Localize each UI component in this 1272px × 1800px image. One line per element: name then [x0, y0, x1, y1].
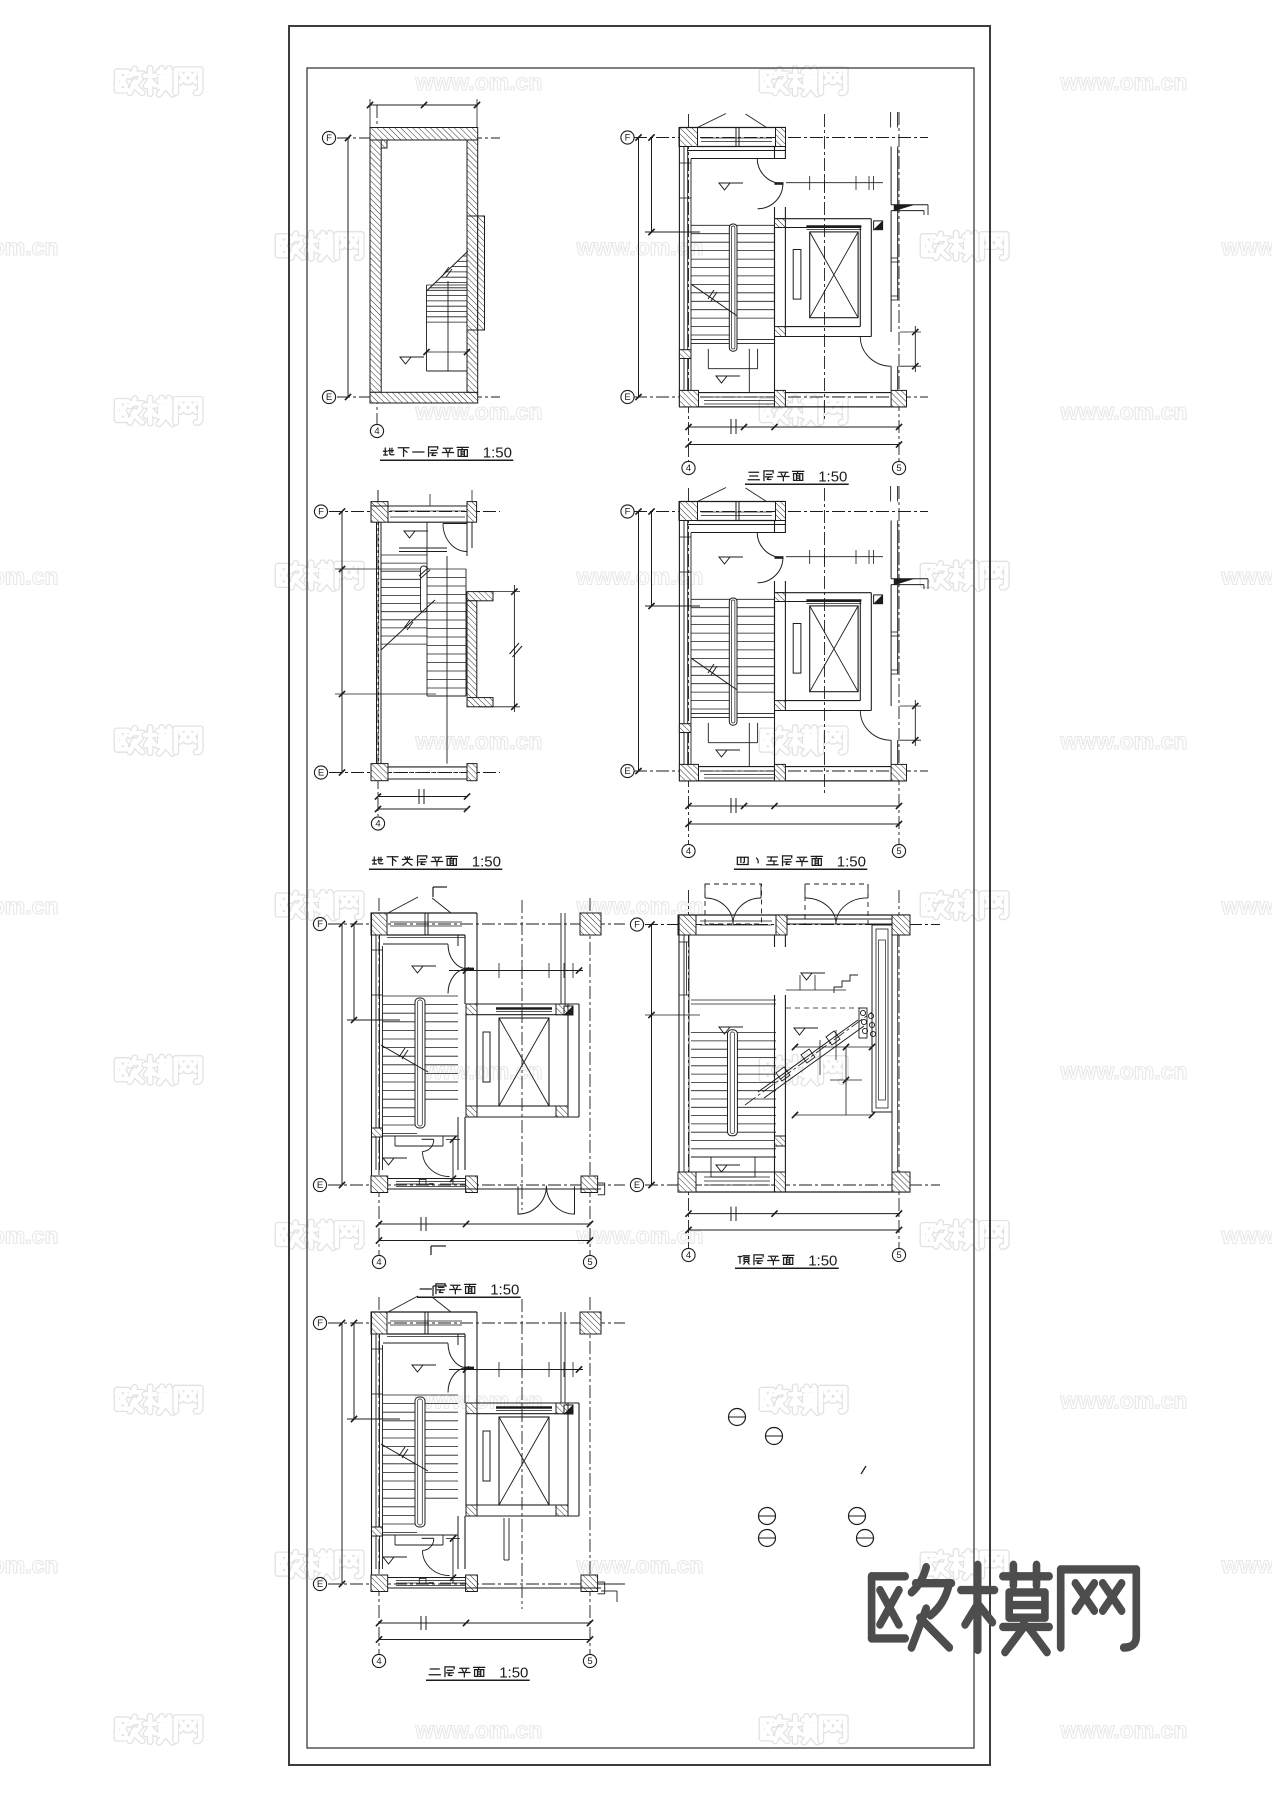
- D1 bottom wall hatched: [370, 392, 478, 403]
- detail circle symbol 6: [857, 1530, 874, 1547]
- outer border frame: [289, 26, 990, 1765]
- D3 top wall: [371, 505, 467, 507]
- D6 left wall window: [679, 941, 689, 943]
- detail circle symbol 4: [759, 1530, 776, 1547]
- D3 level marker: [404, 531, 415, 538]
- D7 elevator shaft top wall: [466, 1402, 579, 1404]
- D4 axis E bubble: [621, 764, 634, 777]
- D3 left dim ext: [335, 568, 430, 570]
- D2 top wall outer line: [679, 127, 786, 129]
- D4 dim row 1: [689, 805, 900, 807]
- D2 top wall inner line: [698, 146, 777, 148]
- D7 stair treads upper: [383, 1394, 458, 1396]
- D7 dim double tick: [420, 1616, 422, 1630]
- svg-text:F: F: [326, 133, 332, 144]
- D5 left wall sills: [371, 949, 383, 951]
- D3 bottom dim 1: [378, 796, 467, 798]
- svg-text:4: 4: [686, 1250, 691, 1261]
- D6 hinge plate: [859, 1008, 867, 1038]
- D5 dim double tick: [420, 1217, 422, 1231]
- D5 axis F line: [328, 923, 625, 925]
- D2 stair door arc lower: [758, 184, 783, 209]
- D7 stair well rect: [394, 1535, 396, 1545]
- D3 axis E bubble: [314, 766, 327, 779]
- D1 top dim ext: [369, 99, 371, 127]
- D3 right hatched stub top: [467, 592, 493, 601]
- D3 diag arrows: [404, 620, 410, 628]
- D2 stair-room right wall: [774, 147, 776, 160]
- D5 upper door arc 2: [448, 969, 468, 994]
- D6 axis 4 bubble: [682, 1248, 695, 1261]
- D6 level top: [719, 1027, 730, 1034]
- D7 vestibule lines: [387, 1336, 465, 1338]
- D7 bottom wall: [371, 1587, 601, 1589]
- D2 dim extension above shaft: [786, 182, 883, 184]
- D7 axis 5 line: [589, 1297, 591, 1654]
- D2 level marker top: [719, 183, 730, 190]
- D2 car door sill: [806, 225, 861, 227]
- D7 top wall window: [390, 1320, 462, 1322]
- D6 dim row 2: [689, 1229, 900, 1231]
- D6 top dashed canopy right: [805, 884, 868, 924]
- D6 stair treads: [691, 1032, 776, 1034]
- D1 axis E bubble: [322, 390, 335, 403]
- D5 threshold step: [419, 1179, 426, 1185]
- D5 axis 4 bubble: [372, 1255, 385, 1268]
- D7 axis F bubble: [313, 1316, 326, 1329]
- D2 elevator car: [810, 232, 858, 318]
- D4 elevator shaft top wall: [775, 592, 872, 594]
- D7 below-wall duct: [503, 1518, 505, 1560]
- D4 left wall window sills: [679, 536, 691, 538]
- D7 axis E bubble: [313, 1577, 326, 1590]
- D5 double door jambs: [517, 1186, 519, 1214]
- D2 bottom threshold lines: [704, 396, 775, 398]
- D3 right hatched stub bottom: [467, 698, 493, 707]
- D2 elevator centerline: [824, 114, 826, 420]
- D5 stair door arc small: [423, 1140, 434, 1152]
- D7 stair handrail: [415, 1397, 425, 1527]
- D2 left wall outer: [678, 128, 680, 407]
- D3 bottom dim 2: [378, 808, 467, 810]
- D5 title 一层平面 1:50: [420, 1284, 431, 1293]
- D2 left dim line inner: [651, 138, 653, 233]
- D1 axis E line: [337, 396, 500, 398]
- D6 left wall: [678, 915, 680, 1192]
- D5 car door sill: [496, 1007, 552, 1009]
- svg-text:1:50: 1:50: [490, 1282, 519, 1299]
- D7 stair door dim line: [452, 1538, 454, 1584]
- svg-text:E: E: [634, 1180, 640, 1191]
- D2 right dim line: [914, 326, 916, 372]
- D4 left dim line inner: [651, 512, 653, 607]
- D7 stair break line: [381, 1444, 428, 1471]
- D2 shaft left wall: [774, 228, 776, 327]
- D7 elevator car X: [499, 1417, 549, 1505]
- D1 axis F bubble: [322, 131, 335, 144]
- D2 hall button box: [874, 221, 883, 230]
- D7 roof line left: [388, 1296, 418, 1312]
- D3 stair right flight sides: [426, 555, 428, 696]
- D7 level marker top: [412, 1365, 423, 1372]
- D5 axis 4 line: [378, 898, 380, 1255]
- D2 right wall middle: [890, 211, 892, 332]
- D4 stair handrail: [729, 598, 737, 725]
- svg-text:E: E: [326, 392, 332, 403]
- D3 bottom dim double tick: [418, 789, 420, 804]
- D3 stair bottom line: [427, 695, 466, 697]
- D2 right wall window marks: [891, 257, 898, 259]
- D5 shaft corner hatches: [466, 1004, 477, 1015]
- D3 top dim ext above: [377, 490, 379, 501]
- D6 stair bottom: [691, 1156, 776, 1158]
- D7 left dim line 2: [353, 1323, 355, 1419]
- D4 bottom-left column: [679, 764, 698, 781]
- D7 shaft left wall: [465, 1414, 467, 1505]
- D5 stair break line: [381, 1045, 428, 1072]
- D7 upper door arc 1: [448, 1343, 468, 1368]
- D4 vestibule lines: [687, 524, 786, 526]
- D7 stair door arc small: [423, 1539, 434, 1551]
- D2 axis E bubble: [621, 390, 634, 403]
- D4 axis 4 bubble: [682, 844, 695, 857]
- D4 top wall mullion: [735, 502, 737, 521]
- D7 axis 4 line: [378, 1297, 380, 1654]
- D7 bottom right stub: [601, 1583, 625, 1585]
- D3 top wall window: [390, 510, 465, 512]
- D5 dim row above shaft: [449, 970, 583, 972]
- D1 stair dim: [427, 351, 468, 353]
- D2 axis F line: [634, 137, 928, 139]
- D3 left wall: [376, 522, 378, 763]
- D4 stair treads lower: [691, 700, 733, 702]
- svg-text:1:50: 1:50: [818, 469, 847, 486]
- D3 right dim line: [513, 585, 515, 712]
- D5 axis E line: [328, 1184, 625, 1186]
- D6 top wall: [678, 914, 910, 916]
- D7 left wall hatch block: [372, 1527, 383, 1536]
- D1 left wall hatched: [370, 140, 381, 392]
- D4 ledge solid arrow: [894, 579, 914, 585]
- D5 double door arc right: [546, 1186, 574, 1214]
- D3 bottom wall centerline: [371, 772, 477, 774]
- D7 shaft corner hatches: [466, 1403, 477, 1414]
- D1 right wall upper hatched: [467, 140, 478, 216]
- D1 stair diag arrows: [443, 267, 449, 275]
- D1 top wall hatched: [370, 128, 478, 141]
- D2 landing divider line: [748, 349, 750, 393]
- D5 top-left column: [371, 913, 387, 935]
- svg-text:5: 5: [896, 463, 901, 474]
- D6 axis E bubble: [630, 1178, 643, 1191]
- D5 shaft right wall: [567, 1015, 569, 1106]
- D5 top section mark: [433, 886, 447, 888]
- D7 axis E line: [328, 1583, 625, 1585]
- D4 title 四、五层平面 1:50: [737, 857, 748, 864]
- D5 left wall hatch block: [372, 1128, 383, 1137]
- D5 bottom wall: [371, 1188, 601, 1190]
- D7 counterweight: [483, 1431, 490, 1481]
- D4 axis 4 line: [688, 488, 690, 844]
- D5 counterweight: [483, 1032, 490, 1082]
- D2 right wall lower: [890, 366, 892, 390]
- D6 top wall sill right: [787, 918, 892, 920]
- D5 stair treads upper: [383, 995, 458, 997]
- D3 right stub lines: [492, 592, 494, 601]
- D4 bottom wall inner: [699, 766, 775, 768]
- D5 dim row ext lines: [498, 963, 500, 978]
- D7 bottom threshold: [396, 1580, 465, 1582]
- D5 axis E bubble: [313, 1178, 326, 1191]
- D1 stair side lines: [426, 285, 428, 371]
- D6 bottom threshold: [704, 1176, 770, 1178]
- D4 elevator car: [810, 606, 858, 692]
- D1 left dim line: [347, 138, 349, 397]
- D3 bottom wall: [371, 766, 477, 768]
- D7 car door sill: [496, 1406, 552, 1408]
- svg-text:5: 5: [587, 1257, 592, 1268]
- D6 stair handrail: [728, 1030, 738, 1136]
- D6 diagonal squares: [776, 1067, 790, 1081]
- D6 machine room dashed line: [786, 1007, 866, 1009]
- D6 machine dim vertical: [845, 1047, 847, 1115]
- D2 stair door leaf: [775, 182, 784, 185]
- D6 machine room lines: [786, 989, 846, 991]
- D6 axis E line: [645, 1184, 940, 1186]
- D3 top-left column: [371, 502, 388, 523]
- D4 axis 5 bubble: [892, 844, 905, 857]
- D5 roof line left: [388, 897, 418, 913]
- D7 shaft bottom wall: [466, 1515, 579, 1517]
- D3 title 地下夹层平面 1:50: [372, 857, 383, 864]
- D7 axis 4 bubble: [372, 1654, 385, 1667]
- D3 axis E line: [329, 772, 500, 774]
- D4 top wall inner line: [698, 520, 777, 522]
- D6 machine dim lines 2: [795, 1114, 872, 1116]
- D3 corridor divider: [426, 522, 428, 556]
- D5 elevator car X: [499, 1018, 549, 1106]
- D4 car door sill: [806, 599, 861, 601]
- D4 elevator shaft bottom wall: [775, 710, 872, 712]
- D4 axis 5 line: [898, 486, 900, 844]
- D5 left dim line: [341, 924, 343, 1185]
- D7 left wall inner: [379, 1334, 381, 1569]
- D6 extra verticals: [835, 1030, 837, 1060]
- D7 stair door arc big: [423, 1551, 450, 1576]
- D4 left wall outer: [678, 502, 680, 781]
- D3 axis F bubble: [314, 505, 327, 518]
- D7 hall button box: [564, 1405, 573, 1414]
- svg-text:4: 4: [375, 819, 380, 830]
- D4 bottom-right column: [891, 764, 906, 781]
- D4 stair-room right wall: [774, 521, 776, 534]
- D4 right door arc: [860, 711, 891, 741]
- D2 stair handrail: [729, 224, 737, 351]
- D2 bottom-mid column: [775, 390, 786, 407]
- D6 top dashed canopy left: [705, 884, 762, 924]
- D6 top-mid column: [776, 915, 787, 935]
- D4 balcony ledge: [891, 578, 928, 580]
- D2 elevator car X: [810, 232, 858, 318]
- D2 right door arc: [860, 337, 891, 367]
- D2 axis 4 line: [688, 114, 690, 461]
- svg-text:F: F: [317, 919, 323, 930]
- D7 dim row 2: [379, 1639, 590, 1641]
- D4 bottom-mid column: [775, 764, 786, 781]
- D7 title 二层平面 1:50: [429, 1669, 440, 1675]
- D4 stair treads upper: [691, 598, 775, 600]
- D2 axis F bubble: [621, 131, 634, 144]
- D2 vestibule lines: [687, 150, 786, 152]
- D6 axis F line: [645, 924, 940, 926]
- D4 right dim line: [914, 700, 916, 746]
- D4 dim row 1 double tick: [730, 798, 732, 813]
- D1 stair lower treads: [427, 284, 468, 286]
- D2 dim row 1 double tick: [730, 419, 732, 434]
- D2 stair treads upper: [691, 224, 775, 226]
- D5 elevator car: [499, 1018, 549, 1106]
- D6 bottom-right column: [892, 1172, 910, 1192]
- D4 stair door arc lower: [758, 558, 783, 583]
- D4 stair door leaf: [775, 556, 784, 559]
- D4 shaft bottom-left hatch: [775, 701, 786, 711]
- D2 right wall upper: [890, 147, 892, 205]
- D5 top wall inner: [387, 934, 465, 936]
- D2 balcony ledge: [891, 204, 928, 206]
- inner border frame: [307, 68, 974, 1748]
- D4 elevator shaft right wall: [859, 602, 861, 701]
- D5 stair door dim line: [452, 1139, 454, 1185]
- D2 upper ext verticals: [890, 112, 892, 128]
- D6 dim row 1: [689, 1213, 900, 1215]
- svg-text:5: 5: [896, 846, 901, 857]
- D1 right wall mid hatched: [467, 216, 478, 330]
- D5 stair handrail: [415, 998, 425, 1128]
- D3 top-right column: [467, 502, 477, 523]
- D4 left wall hatch block: [679, 724, 691, 733]
- D7 left dim line: [341, 1323, 343, 1584]
- D1 top dim line: [370, 104, 477, 106]
- detail circle symbol 1: [729, 1409, 746, 1426]
- D6 bottom-left column: [678, 1172, 696, 1192]
- D7 axis F line: [328, 1322, 625, 1324]
- D1 level marker: [400, 357, 411, 364]
- D7 bottom-left column: [371, 1575, 388, 1592]
- D7 level marker bottom: [383, 1557, 394, 1564]
- D2 title 三层平面 1:50: [748, 472, 759, 480]
- D4 stair break line: [692, 659, 737, 690]
- D5 left wall outer: [371, 913, 373, 1185]
- D7 upper door leaf: [464, 1367, 474, 1369]
- D7 elevator car: [499, 1417, 549, 1505]
- svg-text:4: 4: [686, 463, 691, 474]
- D5 top-right column: [580, 913, 601, 935]
- D5 bottom-mid column: [466, 1176, 478, 1193]
- D2 shaft top-left hatch: [775, 219, 786, 228]
- D5 bottom-right column: [581, 1176, 598, 1193]
- D3 break zigzag: [510, 643, 520, 654]
- D7 left wall outer: [371, 1312, 373, 1584]
- D5 upper door arc 1: [448, 944, 468, 969]
- D1 axis F line: [337, 137, 500, 139]
- D5 elevator centerline: [521, 900, 523, 1210]
- D2 shaft bottom-left hatch: [775, 327, 786, 337]
- D1 stair center line: [447, 281, 449, 371]
- svg-text:1:50: 1:50: [499, 1665, 528, 1682]
- D2 left dim line outer: [638, 138, 640, 398]
- D2 ledge solid arrow: [894, 205, 914, 211]
- D6 right duct inner: [876, 929, 888, 1108]
- D4 axis F bubble: [621, 505, 634, 518]
- D7 bottom-right column: [581, 1575, 598, 1592]
- D7 bottom-mid column: [466, 1575, 478, 1592]
- D5 stair door arc big: [423, 1152, 450, 1177]
- D2 axis 4 bubble: [682, 461, 695, 474]
- D2 roof line left: [698, 114, 727, 128]
- D6 diagonal centerline: [745, 1012, 872, 1105]
- D4 dim extension above shaft: [786, 556, 883, 558]
- D5 upper door leaf: [464, 968, 474, 970]
- D5 axis 5 bubble: [583, 1255, 596, 1268]
- D3 left wall centerline: [378, 522, 380, 764]
- D2 bottom wall outer: [679, 406, 907, 408]
- D1 axis 4 line: [376, 105, 378, 424]
- D6 machine dim lines: [795, 1046, 872, 1048]
- D6 top-right column: [892, 915, 910, 935]
- svg-text:E: E: [318, 768, 324, 779]
- D6 diagonal stair rail 1: [758, 1020, 858, 1092]
- D6 hinge circles: [860, 1010, 865, 1015]
- D5 bottom threshold: [396, 1181, 465, 1183]
- D2 left wall window sills: [679, 162, 691, 164]
- D7 top wall mullion: [424, 1312, 426, 1334]
- D6 canopy arcs left: [705, 898, 733, 924]
- D6 central wall hatches: [775, 1136, 786, 1146]
- svg-text:1:50: 1:50: [837, 854, 866, 871]
- D1 top-left notch: [370, 140, 387, 148]
- D2 counterweight: [793, 250, 801, 300]
- D5 stair break arrows: [399, 1048, 405, 1057]
- D4 bottom wall outer: [679, 780, 907, 782]
- D3 stair diagonal: [381, 600, 435, 650]
- D5 dim row 1: [379, 1223, 590, 1225]
- D3 right wall upper: [466, 522, 468, 556]
- svg-text:F: F: [625, 133, 631, 144]
- D4 roof line left: [698, 488, 727, 502]
- svg-text:E: E: [317, 1579, 323, 1590]
- big gray 欧模网 logo bottom right: [872, 1567, 952, 1648]
- D3 stair right treads: [427, 568, 466, 570]
- svg-text:E: E: [624, 766, 630, 777]
- svg-text:F: F: [634, 920, 640, 931]
- D7 left wall sills: [371, 1348, 383, 1350]
- D7 stair treads lower: [383, 1506, 417, 1508]
- D2 stair door arc upper: [757, 158, 782, 183]
- D3 bottom-left column: [371, 764, 388, 781]
- D7 stair-room right wall: [457, 1334, 459, 1345]
- D4 left wall inner: [687, 521, 689, 765]
- D4 right wall upper: [890, 521, 892, 579]
- D5 dim row 2: [379, 1240, 590, 1242]
- D4 elevator centerline: [824, 488, 826, 794]
- svg-text:F: F: [318, 507, 324, 518]
- D5 bottom-left column: [371, 1176, 388, 1193]
- D6 stair upper landing lines: [691, 999, 776, 1001]
- D5 top wall window: [390, 921, 462, 923]
- D2 elevator shaft right wall: [859, 228, 861, 327]
- D5 elevator shaft top wall: [466, 1003, 579, 1005]
- D4 stair door arc upper: [757, 532, 782, 557]
